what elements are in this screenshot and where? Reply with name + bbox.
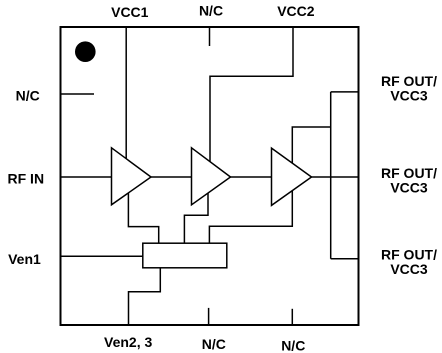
svg-text:RF IN: RF IN [8, 170, 45, 186]
svg-text:VCC3: VCC3 [390, 88, 428, 104]
svg-text:Ven1: Ven1 [8, 251, 41, 267]
svg-text:N/C: N/C [199, 3, 223, 19]
svg-text:VCC2: VCC2 [277, 3, 315, 19]
svg-text:N/C: N/C [202, 336, 226, 352]
svg-text:RF OUT/: RF OUT/ [381, 246, 437, 262]
svg-text:VCC3: VCC3 [390, 180, 428, 196]
svg-text:VCC1: VCC1 [111, 4, 149, 20]
svg-text:Ven2, 3: Ven2, 3 [104, 334, 152, 350]
svg-text:VCC3: VCC3 [390, 261, 428, 277]
svg-text:N/C: N/C [281, 337, 305, 353]
svg-text:N/C: N/C [16, 88, 40, 104]
